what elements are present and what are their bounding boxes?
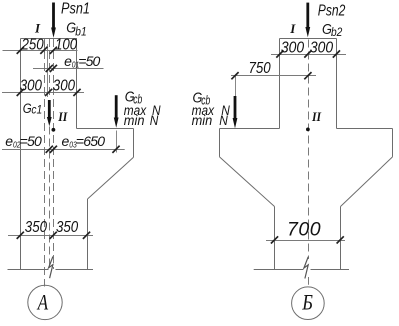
svg-text:e: e bbox=[64, 53, 72, 69]
svg-text:300: 300 bbox=[281, 40, 305, 57]
svg-text:250: 250 bbox=[21, 36, 44, 53]
svg-text:Psn2: Psn2 bbox=[318, 1, 346, 19]
svg-text:350: 350 bbox=[25, 219, 47, 236]
svg-text:min: min bbox=[124, 113, 145, 128]
svg-text:=650: =650 bbox=[76, 133, 105, 149]
svg-text:350: 350 bbox=[56, 219, 78, 236]
svg-text:b2: b2 bbox=[331, 26, 343, 39]
svg-text:=50: =50 bbox=[78, 53, 100, 69]
svg-text:750: 750 bbox=[249, 60, 271, 77]
svg-text:=50: =50 bbox=[20, 133, 42, 149]
svg-text:II: II bbox=[311, 110, 322, 125]
svg-text:N: N bbox=[219, 112, 228, 128]
svg-text:e: e bbox=[5, 133, 13, 149]
svg-text:300: 300 bbox=[310, 40, 334, 57]
svg-text:I: I bbox=[34, 20, 41, 35]
svg-text:700: 700 bbox=[287, 219, 321, 241]
svg-text:N: N bbox=[150, 112, 159, 128]
svg-text:e: e bbox=[62, 133, 70, 149]
svg-text:min: min bbox=[192, 113, 213, 128]
svg-text:300: 300 bbox=[53, 77, 75, 94]
svg-text:Psn1: Psn1 bbox=[61, 1, 90, 18]
svg-text:А: А bbox=[36, 290, 49, 315]
svg-text:100: 100 bbox=[55, 36, 77, 53]
svg-text:I: I bbox=[289, 21, 296, 36]
svg-text:Б: Б bbox=[301, 291, 313, 315]
svg-text:II: II bbox=[57, 110, 68, 125]
svg-text:300: 300 bbox=[20, 77, 42, 94]
svg-text:c1: c1 bbox=[31, 104, 42, 117]
